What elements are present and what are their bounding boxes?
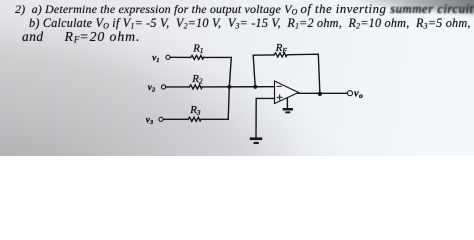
resistor R1 (191, 55, 204, 59)
wire v1 to R1 (170, 56, 190, 58)
wire summing bus vertical (228, 57, 231, 119)
wire ground stub under op-amp (286, 98, 288, 108)
node junction dot inverting input (253, 85, 257, 89)
resistor R3 (188, 117, 201, 121)
problem text line 1 (15, 2, 473, 17)
photo corner shadow (330, 0, 474, 13)
wire feedback right leg (291, 54, 320, 94)
svg-text:R2: R2 (191, 73, 203, 86)
node junction dot summing bus (227, 85, 231, 89)
problem text line 3 (22, 29, 44, 45)
svg-text:v1: v1 (152, 53, 159, 65)
svg-text:R3: R3 (189, 104, 201, 117)
node vo output terminal (348, 91, 353, 96)
wire v3 to R3 (163, 118, 188, 120)
ground symbol under op-amp (283, 108, 293, 111)
wire non-inverting input to ground (256, 98, 275, 137)
wire R2 to op-amp inverting input (202, 86, 274, 88)
node v1 input terminal (166, 55, 170, 59)
wire feedback left leg (253, 55, 274, 87)
node v2 input terminal (161, 85, 165, 89)
op-amp U1 (275, 81, 299, 104)
wire R1 to summing bus (204, 56, 232, 58)
node v3 input terminal (159, 117, 163, 121)
resistor R2 (189, 85, 202, 89)
ground symbol left (non-inverting) (250, 137, 262, 140)
svg-text:v2: v2 (148, 82, 156, 94)
svg-text:RF: RF (275, 42, 288, 55)
op-amp minus sign (277, 85, 281, 87)
wire R3 to summing bus (201, 118, 228, 120)
svg-text:R1: R1 (192, 43, 203, 56)
wire v2 to R2 (166, 86, 190, 88)
resistor RF (274, 53, 291, 57)
svg-text:v3: v3 (146, 114, 154, 126)
wire op-amp output (298, 92, 347, 94)
svg-text:vo: vo (354, 88, 363, 100)
problem text line 2 (29, 16, 471, 31)
node junction dot output (318, 92, 322, 96)
op-amp plus sign (277, 96, 282, 98)
